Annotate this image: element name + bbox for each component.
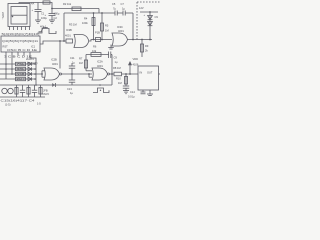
wire from node E to IC2B [59, 41, 61, 69]
gate IC2A [92, 60, 110, 81]
row wire 2 [0, 67, 36, 71]
IC1 bottom pin stubs [6, 52, 30, 79]
diode D3 [52, 83, 56, 87]
svg-text:Q4Q5Q6Q7Q8Q9Q11: Q4Q5Q6Q7Q8Q9Q11 [2, 39, 39, 43]
svg-text:R9: R9 [145, 44, 149, 48]
svg-text:1M: 1M [79, 61, 83, 65]
ground mark [108, 45, 114, 50]
node E2 [63, 40, 65, 42]
svg-text:1µ: 1µ [72, 61, 75, 65]
transformer T1 [8, 4, 30, 31]
wire IC4 out [159, 73, 161, 75]
fuse F1 [43, 1, 50, 4]
svg-text:OUT: OUT [147, 71, 153, 75]
svg-text:IC2B: IC2B [51, 58, 57, 62]
wire IC3B out [89, 40, 112, 42]
svg-text:C13: C13 [67, 87, 72, 91]
node D [149, 11, 151, 13]
svg-text:IC2A: IC2A [97, 60, 103, 64]
svg-text:220V~: 220V~ [1, 12, 5, 20]
wire VDC [140, 11, 158, 13]
capacitor C17 [32, 85, 37, 97]
svg-text:2kH: 2kH [17, 77, 25, 81]
wire C9 down to rail [111, 55, 113, 86]
node B2 [93, 39, 95, 41]
VDD arrow [128, 57, 139, 74]
resistor R4 [82, 13, 95, 40]
resistor R11 [15, 85, 18, 97]
svg-text:R5: R5 [105, 24, 109, 28]
svg-text:7µ: 7µ [113, 6, 116, 10]
svg-text:4001: 4001 [97, 64, 103, 68]
capacitor C9 [109, 52, 118, 65]
resistor R6 [86, 45, 109, 57]
gate IC3B [65, 28, 89, 48]
svg-text:RST: RST [3, 45, 9, 49]
ground for C14 [123, 91, 129, 94]
svg-text:C9: C9 [114, 56, 118, 60]
svg-text:1-5: 1-5 [37, 102, 41, 106]
svg-text:10k: 10k [92, 49, 97, 53]
capacitor C14 [123, 86, 136, 99]
svg-text:(1-5): (1-5) [5, 103, 11, 107]
node C2 [101, 39, 103, 41]
wire gate inputs [42, 71, 45, 77]
wire left feed down [63, 13, 65, 41]
capacitor C16 [20, 85, 25, 97]
svg-text:CM-5: CM-5 [43, 92, 50, 96]
node L [125, 73, 127, 75]
svg-text:R3 1M: R3 1M [69, 23, 77, 27]
wire IC2B out [62, 73, 92, 75]
node C [101, 12, 103, 14]
node A [51, 8, 53, 10]
svg-text:1µ: 1µ [122, 6, 125, 10]
waveform glyph [38, 29, 57, 34]
dashed enclosure [137, 2, 160, 40]
node B [93, 12, 95, 14]
svg-text:C5: C5 [112, 2, 116, 6]
capacitor C1 [32, 3, 48, 21]
svg-text:C2: C2 [54, 16, 58, 20]
wire step down [98, 9, 100, 14]
pulse glyph [93, 84, 109, 92]
node I [71, 73, 73, 75]
node E [59, 40, 61, 42]
wire IC2A inputs [89, 74, 92, 77]
diode D1 [144, 12, 159, 40]
svg-text:IC1: IC1 [31, 45, 36, 49]
svg-text:C7: C7 [121, 2, 125, 6]
svg-text:4001: 4001 [118, 29, 124, 33]
node M [129, 73, 131, 75]
node K [111, 73, 113, 75]
resistor R9 [141, 40, 149, 58]
wire R8 to IC4 [122, 73, 139, 75]
node G2 [149, 39, 151, 41]
svg-text:40k-1: 40k-1 [40, 25, 47, 29]
svg-text:38k: 38k [17, 67, 26, 71]
bus vertical [35, 64, 37, 85]
svg-text:0.01µ: 0.01µ [128, 95, 135, 99]
svg-text:C11: C11 [70, 56, 75, 60]
svg-text:C14: C14 [130, 90, 135, 94]
wire top from T1 [19, 3, 52, 9]
svg-text:R10: R10 [116, 77, 121, 81]
svg-text:4A: 4A [31, 2, 34, 6]
svg-text:100µ: 100µ [54, 12, 60, 16]
svg-text:C15(16)4117·C4: C15(16)4117·C4 [1, 99, 36, 103]
svg-text:4001: 4001 [65, 34, 71, 38]
svg-text:R7: R7 [79, 57, 83, 61]
ground for C2 [49, 20, 55, 23]
svg-text:75k: 75k [17, 62, 26, 66]
wire IC1 out [40, 41, 66, 44]
capacitor C11 [69, 56, 76, 74]
capacitor C3 [66, 39, 73, 43]
capacitor C5 [112, 2, 123, 16]
svg-text:R4: R4 [84, 17, 88, 21]
capacitor C6 [121, 2, 134, 16]
gate IC3C [112, 25, 128, 46]
bottom rail upper [0, 84, 112, 86]
svg-text:R6: R6 [93, 45, 97, 49]
svg-text:5(4)3C(6)C(7)D(10): 5(4)3C(6)C(7)D(10) [2, 32, 40, 36]
node J [88, 73, 90, 75]
series element X1 [96, 38, 101, 42]
svg-text:IC3C: IC3C [117, 25, 123, 29]
svg-text:NSB: NSB [17, 72, 25, 76]
svg-text:P1B: P1B [95, 31, 100, 35]
gate IC2B [44, 58, 62, 81]
svg-text:4001: 4001 [52, 62, 58, 66]
capacitor C13 [67, 74, 75, 95]
staircase wire to bus [30, 56, 36, 65]
resistor R2 [72, 7, 81, 11]
IC4 ground pin [147, 90, 153, 96]
wire rail end down [132, 13, 134, 40]
row wire 4 [0, 77, 36, 81]
junction dots on rows [5, 63, 7, 65]
node H [41, 73, 43, 75]
node N [35, 84, 37, 86]
svg-text:IC3B: IC3B [66, 28, 72, 32]
bottom rail lower [0, 96, 45, 98]
wire IC3C out [128, 39, 153, 41]
svg-text:1µ: 1µ [70, 91, 73, 95]
svg-text:OSC B C D 1E: OSC B C D 1E [7, 48, 37, 52]
ground for C1 [35, 20, 41, 23]
svg-text:R2 11k: R2 11k [63, 2, 72, 6]
capacitor C15 [141, 90, 146, 94]
varistor RV1 [2, 88, 7, 93]
svg-text:IN: IN [140, 71, 143, 75]
svg-text:100k: 100k [82, 21, 88, 25]
resistor R7 [79, 55, 92, 71]
svg-text:VDD: VDD [133, 57, 139, 61]
svg-text:12V: 12V [139, 6, 144, 10]
IC1 counter box [1, 36, 40, 52]
svg-text:1M: 1M [105, 29, 109, 33]
resistor R8 [113, 66, 122, 76]
varistor RV2 [8, 88, 13, 93]
wire IC2A out [110, 73, 114, 75]
row wire 3 [0, 72, 42, 76]
IC4 box [138, 66, 159, 90]
svg-text:1µ: 1µ [115, 60, 118, 64]
capacitor C2 [45, 9, 60, 21]
node G [141, 39, 143, 41]
svg-text:R8 1M: R8 1M [113, 66, 121, 70]
svg-text:JFB: JFB [43, 89, 48, 93]
resistor R13 [39, 85, 49, 97]
wire upper rail [52, 8, 99, 10]
svg-text:C9: C9 [155, 15, 159, 19]
resistor R5 [101, 13, 109, 40]
svg-text:2kΩ×4: 2kΩ×4 [26, 57, 34, 61]
svg-text:1M: 1M [118, 81, 122, 85]
wire lower rail [64, 12, 115, 14]
resistor R12 [27, 85, 30, 97]
node F [132, 39, 134, 41]
row wire 1 [0, 62, 36, 66]
resistor R10 [116, 74, 128, 86]
